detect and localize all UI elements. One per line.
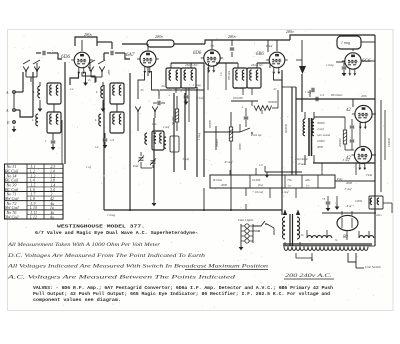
svg-text:4000: 4000 — [221, 183, 228, 187]
svg-text:10000: 10000 — [317, 139, 325, 143]
svg-text:300 ohm: 300 ohm — [228, 71, 231, 80]
svg-text:Dial Lights: Dial Lights — [237, 218, 254, 222]
svg-text:A: A — [5, 108, 9, 113]
svg-text:1/4: 1/4 — [110, 138, 114, 142]
svg-text:All Voltages Indicated Are Mea: All Voltages Indicated Are Measured With… — [6, 264, 268, 270]
svg-text:500000: 500000 — [268, 100, 278, 104]
svg-text:.5 muf: .5 muf — [342, 158, 351, 162]
svg-text:WESTINGHOUSE MODEL 377.: WESTINGHOUSE MODEL 377. — [57, 224, 145, 230]
svg-text:All Measurement Taken With A 1: All Measurement Taken With A 1000 Ohm Pe… — [7, 242, 162, 248]
svg-text:250000: 250000 — [339, 138, 342, 147]
svg-text:1 meg: 1 meg — [326, 63, 334, 67]
svg-text:Line Switch: Line Switch — [364, 265, 381, 269]
svg-text:80 ohms: 80 ohms — [331, 93, 343, 97]
svg-text:L 4: L 4 — [29, 179, 35, 183]
svg-text:VALVES: - 6D6 R.F. Amp.; 6A7 P: VALVES: - 6D6 R.F. Amp.; 6A7 Pentagrid C… — [33, 285, 333, 291]
svg-text:L 6: L 6 — [29, 188, 35, 192]
svg-text:30000: 30000 — [317, 121, 325, 125]
svg-text:1 meg: 1 meg — [193, 83, 201, 87]
svg-text:6D6: 6D6 — [61, 54, 70, 60]
svg-text:280v: 280v — [286, 29, 294, 34]
svg-text:.05 muf: .05 muf — [224, 161, 234, 164]
svg-text:H-Ohm: H-Ohm — [212, 178, 223, 182]
svg-text:L: L — [31, 118, 34, 122]
svg-text:6/7 Valve and Magic Eye Dual W: 6/7 Valve and Magic Eye Dual Wave A.C. S… — [35, 230, 198, 236]
svg-text:L 12: L 12 — [29, 215, 37, 219]
svg-text:1 meg: 1 meg — [107, 213, 115, 217]
svg-text:L 2: L 2 — [29, 170, 35, 174]
svg-text:80: 80 — [343, 235, 348, 240]
svg-text:Trans: Trans — [298, 162, 306, 166]
svg-text:42: 42 — [346, 108, 351, 113]
svg-text:Low: Low — [151, 123, 157, 126]
svg-text:42: 42 — [50, 197, 54, 201]
svg-text:500000: 500000 — [209, 120, 212, 128]
svg-text:L: L — [32, 90, 35, 94]
svg-text:Poly: Poly — [336, 177, 343, 181]
svg-text:75k: 75k — [287, 178, 292, 182]
svg-text:150000: 150000 — [387, 138, 391, 148]
svg-text:1 meg: 1 meg — [197, 132, 201, 140]
svg-text:.25 muf: .25 muf — [234, 86, 244, 90]
svg-text:.5 muf: .5 muf — [281, 190, 290, 194]
svg-text:Interstage: Interstage — [294, 157, 309, 161]
svg-text:L: L — [95, 90, 98, 94]
svg-text:3.8: 3.8 — [50, 179, 55, 183]
svg-text:6A7: 6A7 — [126, 52, 135, 58]
svg-text:1w: 1w — [288, 185, 291, 188]
svg-text:15000: 15000 — [355, 200, 363, 203]
svg-text:500000: 500000 — [284, 124, 288, 134]
svg-text:4u: 4u — [50, 215, 54, 219]
svg-text:Pull Output; 42 Push Pull Outp: Pull Output; 42 Push Pull Output; 6G5 Ma… — [33, 291, 330, 297]
svg-text:A.C. Voltages Are Measured Bet: A.C. Voltages Are Measured Between The P… — [6, 275, 235, 281]
svg-text:441v: 441v — [376, 213, 383, 217]
svg-text:4000: 4000 — [317, 145, 324, 149]
svg-text:3.4: 3.4 — [50, 188, 55, 192]
svg-text:200v: 200v — [361, 94, 368, 98]
svg-text:1 meg: 1 meg — [341, 41, 350, 45]
svg-text:3W Coil: 3W Coil — [5, 214, 19, 219]
svg-text:L 10: L 10 — [29, 206, 37, 210]
svg-text:L 8: L 8 — [29, 197, 35, 201]
svg-text:(5w): (5w) — [258, 184, 263, 187]
svg-text:A: A — [5, 90, 9, 95]
svg-text:.5 muf: .5 muf — [344, 187, 353, 191]
svg-text:component values see diagram.: component values see diagram. — [33, 297, 121, 303]
svg-text:1/2: 1/2 — [259, 163, 263, 167]
svg-text:+ 16 muf: + 16 muf — [252, 190, 264, 194]
svg-text:262.5 KC: 262.5 KC — [251, 63, 264, 67]
svg-text:1/4: 1/4 — [220, 72, 223, 76]
svg-text:+B: +B — [210, 45, 214, 48]
svg-text:40k: 40k — [305, 178, 310, 182]
svg-text:-8v: -8v — [161, 84, 166, 88]
svg-text:280v: 280v — [84, 32, 92, 37]
svg-text:262.5 KC: 262.5 KC — [185, 63, 199, 67]
svg-text:1u: 1u — [50, 206, 54, 210]
svg-text:Pad: Pad — [132, 164, 139, 168]
svg-text:4 muf: 4 muf — [317, 127, 325, 131]
svg-text:6D6: 6D6 — [193, 51, 202, 56]
svg-text:.05: .05 — [140, 89, 144, 92]
svg-text:wire wound: wire wound — [317, 134, 331, 137]
svg-text:E: E — [6, 120, 10, 125]
svg-text:.5 muf: .5 muf — [182, 158, 190, 161]
svg-text:Field: Field — [365, 174, 373, 177]
svg-text:1w: 1w — [306, 185, 309, 188]
svg-text:280v: 280v — [228, 34, 236, 39]
svg-text:6B6: 6B6 — [256, 52, 264, 57]
svg-text:- 8 uf +: - 8 uf + — [345, 204, 354, 208]
svg-text:4000: 4000 — [346, 181, 353, 185]
svg-text:50000: 50000 — [239, 143, 242, 150]
svg-text:1/4: 1/4 — [320, 93, 324, 97]
svg-text:D.C. Voltages Are Measured Fro: D.C. Voltages Are Measured From The Poin… — [7, 253, 206, 259]
svg-text:200 240v A.C.: 200 240v A.C. — [285, 272, 332, 279]
svg-text:1.4: 1.4 — [50, 170, 55, 174]
svg-text:L: L — [94, 118, 97, 122]
svg-text:.1 muf: .1 muf — [196, 97, 204, 100]
svg-text:280v: 280v — [155, 34, 163, 39]
